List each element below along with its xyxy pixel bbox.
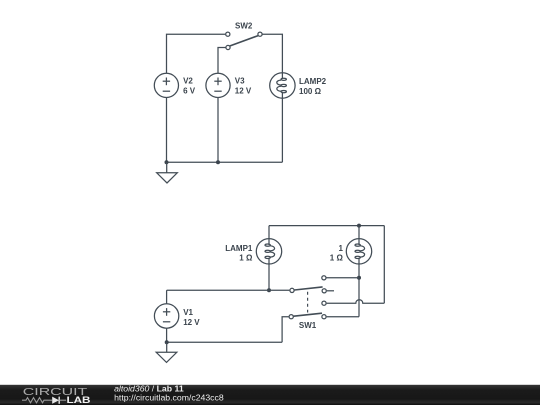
junction dot V1 bottom: [165, 340, 169, 344]
svg-text:SW1: SW1: [299, 321, 317, 330]
svg-text:V1: V1: [183, 308, 193, 317]
wire bottom rail of top circuit: [167, 161, 283, 163]
CircuitLab logo diode: [48, 397, 66, 404]
switch SW1 pole1 common contact: [290, 288, 294, 292]
junction dot LAMP1 bottom: [267, 288, 271, 292]
svg-text:1 Ω: 1 Ω: [330, 254, 344, 263]
junction dot at V2 bottom: [165, 160, 169, 164]
svg-text:http://circuitlab.com/c243cc8: http://circuitlab.com/c243cc8: [114, 393, 224, 403]
voltage source V3: [206, 73, 230, 97]
voltage source V1: [154, 304, 178, 328]
wire V1 top stub: [166, 290, 168, 304]
wire up from bottom rail to SW1 pole2 common: [282, 317, 288, 343]
svg-text:V3: V3: [235, 77, 245, 86]
junction dot at V3 bottom: [216, 160, 220, 164]
wire V1 bottom to rail: [166, 328, 168, 342]
svg-text:6 V: 6 V: [183, 87, 196, 96]
wire SW1 throw T2a to right branch with hop: [327, 300, 385, 304]
wire from V3 up to SW2 throw B: [218, 48, 226, 74]
switch SW2 throw contact B: [226, 45, 230, 49]
lamp 1 (1 ohm): [346, 239, 371, 264]
switch SW1 pole2 common contact: [289, 315, 293, 319]
switch SW1 mechanical link (dashed): [307, 292, 309, 313]
wire SW1 throw T1a to lamp branch: [326, 277, 359, 279]
junction dot top rail at lamp 1ohm: [357, 224, 361, 228]
switch SW1 throw contact T1b: [322, 289, 326, 293]
junction dot SW1 throw T1a wire: [357, 276, 361, 280]
ground symbol bottom circuit: [156, 342, 177, 362]
switch SW1 lever pole 1: [294, 287, 322, 290]
lamp LAMP1: [256, 239, 281, 264]
lamp LAMP2: [270, 73, 295, 98]
svg-text:1 Ω: 1 Ω: [239, 254, 253, 263]
voltage source V2: [154, 73, 178, 97]
wire from SW2 common C to LAMP2 top: [263, 34, 283, 73]
svg-text:100 Ω: 100 Ω: [299, 87, 322, 96]
wire bottom rail of bottom circuit: [167, 341, 282, 343]
switch SW1 throw contact T1a: [322, 276, 326, 280]
svg-text:SW2: SW2: [235, 22, 253, 31]
wire LAMP2 down to bottom rail: [281, 98, 283, 162]
wire stub SW1 throw T1b: [327, 290, 334, 292]
switch SW1 throw contact T2a: [322, 301, 326, 305]
wire V2 down to bottom rail: [166, 98, 168, 163]
svg-text:1: 1: [338, 244, 343, 253]
ground symbol top circuit: [157, 162, 178, 183]
switch SW2 lever: [230, 36, 259, 46]
svg-text:LAMP2: LAMP2: [299, 77, 327, 86]
wire SW1 throw T2b to lamp bottom branch: [327, 316, 359, 318]
wire LAMP1 bottom to node: [268, 264, 270, 290]
svg-text:LAB: LAB: [67, 395, 91, 405]
svg-text:12 V: 12 V: [235, 87, 252, 96]
switch SW2 throw contact A: [226, 32, 230, 36]
wire node row V1 top to SW1 pole1 common: [167, 289, 290, 291]
switch SW1 lever pole 2: [294, 313, 322, 316]
svg-text:V2: V2: [183, 77, 193, 86]
wire lamp1ohm bottom down to SW1 row4: [358, 264, 360, 317]
wire top rail of bottom circuit: [269, 225, 384, 227]
svg-text:LAMP1: LAMP1: [225, 244, 253, 253]
CircuitLab logo resistor zigzag: [22, 398, 48, 403]
switch SW1 throw contact T2b: [322, 315, 326, 319]
wire V3 down to bottom rail: [217, 98, 219, 163]
switch SW2 common contact C: [258, 32, 262, 36]
wire top from V2 to SW2 throw A: [167, 34, 226, 73]
wire LAMP1 top stub: [268, 226, 270, 239]
svg-text:12 V: 12 V: [183, 318, 200, 327]
footer bar: [0, 385, 540, 405]
wire right branch down: [383, 226, 385, 304]
